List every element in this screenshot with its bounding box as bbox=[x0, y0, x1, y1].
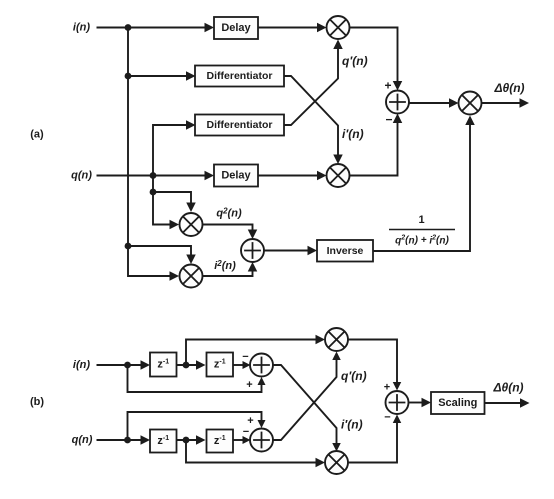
junction i(n) main bbox=[125, 24, 132, 31]
multiplier M6 top (b) bbox=[325, 328, 348, 351]
svg-text:q2(n): q2(n) bbox=[216, 207, 242, 220]
wire S2 to Inverse block bbox=[264, 250, 308, 252]
svg-text:+: + bbox=[384, 79, 391, 93]
junction i to Differentiator F1 bbox=[125, 73, 132, 80]
wire i(n) to delay Z1 bbox=[97, 364, 143, 366]
wire A2 output diagonal to M6 bottom (q'(n)) bbox=[273, 357, 337, 440]
wire Scaling to output arrow bbox=[485, 402, 522, 404]
wire Z3 to Z4 bbox=[177, 439, 198, 441]
svg-text:+: + bbox=[384, 382, 390, 394]
svg-text:−: − bbox=[384, 412, 390, 424]
multiplier M5 (i squared) bbox=[180, 265, 203, 288]
svg-text:i′(n): i′(n) bbox=[342, 127, 364, 141]
wire F1 output diagonal to M2 top (i'(n)) bbox=[284, 76, 338, 158]
summer S1 (a) bbox=[386, 91, 409, 114]
summer A2 (q differentiator) bbox=[250, 429, 273, 452]
wire Inverse output up to M3 bottom bbox=[373, 120, 470, 251]
wire S3 to Scaling block bbox=[409, 402, 424, 404]
block Differentiator F2 (Q path) bbox=[195, 115, 284, 136]
wire i branch to M5 top input bbox=[128, 246, 191, 255]
svg-text:q(n): q(n) bbox=[72, 434, 93, 446]
svg-text:q′(n): q′(n) bbox=[341, 369, 367, 383]
svg-text:i′(n): i′(n) bbox=[341, 418, 363, 432]
wire q(n) to delay Z3 bbox=[97, 439, 143, 441]
svg-text:−: − bbox=[243, 426, 249, 438]
wire i branch to M5 left input bbox=[128, 246, 171, 276]
block Scaling bbox=[431, 392, 485, 414]
svg-text:Δθ(n): Δθ(n) bbox=[493, 81, 524, 95]
wire M7 output to summer S3 bottom bbox=[348, 420, 397, 463]
wire Z2 to summer A1 bbox=[233, 364, 244, 366]
wire q(n-1) bypass to M7 bbox=[186, 440, 318, 463]
junction q(n-1) tap bbox=[183, 437, 190, 444]
svg-text:(b): (b) bbox=[30, 396, 44, 408]
wire q junction up to Differentiator F2 bbox=[153, 125, 188, 176]
svg-text:+: + bbox=[247, 415, 253, 427]
wire M1 output to summer S1 top bbox=[350, 28, 398, 86]
wire M3 to output arrow bbox=[482, 102, 521, 104]
summer A1 (i differentiator) bbox=[250, 354, 273, 377]
svg-text:Δθ(n): Δθ(n) bbox=[492, 381, 523, 395]
summer S3 (b) bbox=[386, 391, 409, 414]
svg-text:Inverse: Inverse bbox=[327, 245, 364, 257]
wire M5 output to summer S2 bottom bbox=[203, 268, 253, 276]
wire i to Differentiator F1 bbox=[128, 75, 188, 77]
svg-text:−: − bbox=[385, 113, 392, 127]
block Z1 z^-1 (I path first) bbox=[150, 353, 177, 377]
block Z4 z^-1 (Q path second) bbox=[207, 430, 234, 453]
block Inverse bbox=[317, 240, 373, 262]
svg-text:Delay: Delay bbox=[221, 22, 251, 34]
summer S2 (magnitude) bbox=[241, 239, 264, 262]
multiplier M2 (q(n-1) x i'(n)) bbox=[327, 164, 350, 187]
block Delay D2 (Q path) bbox=[214, 165, 258, 187]
svg-text:Differentiator: Differentiator bbox=[207, 119, 273, 131]
svg-text:Scaling: Scaling bbox=[438, 397, 477, 409]
multiplier M7 bottom (b) bbox=[325, 451, 348, 474]
wire q junction down to squaring branch bbox=[152, 176, 154, 193]
wire M6 output to summer S3 top bbox=[348, 340, 397, 386]
multiplier M4 (q squared) bbox=[180, 213, 203, 236]
svg-text:i(n): i(n) bbox=[73, 22, 90, 34]
wire q branch to M4 left input bbox=[153, 192, 171, 225]
junction q(n) main bbox=[150, 172, 157, 179]
svg-text:−: − bbox=[242, 351, 248, 363]
junction i(n) (b) bbox=[124, 362, 131, 369]
block Delay D1 (I path) bbox=[214, 17, 258, 39]
svg-text:i(n): i(n) bbox=[73, 359, 90, 371]
wire q(n) to Delay D2 bbox=[97, 175, 207, 177]
svg-text:(a): (a) bbox=[30, 129, 44, 141]
wire Delay D1 to multiplier M1 bbox=[258, 27, 318, 29]
wire q branch to M4 top input bbox=[153, 192, 191, 203]
junction i(n-1) tap bbox=[183, 362, 190, 369]
multiplier M1 (i(n-1) x q'(n)) bbox=[327, 16, 350, 39]
block Differentiator F1 (I path) bbox=[195, 66, 284, 87]
svg-text:1: 1 bbox=[418, 214, 424, 226]
svg-text:+: + bbox=[246, 379, 252, 391]
wire Z1 to Z2 bbox=[177, 364, 198, 366]
block Z3 z^-1 (Q path first) bbox=[150, 430, 177, 453]
junction i squaring branch bbox=[125, 243, 132, 250]
wire i(n-1) bypass to M6 bbox=[186, 340, 318, 366]
multiplier M3 output stage (a) bbox=[459, 92, 482, 115]
wire i(n) to Delay D1 bbox=[97, 27, 207, 29]
wire S1 to multiplier M3 bbox=[409, 102, 450, 104]
wire i(n) vertical bus bbox=[127, 28, 129, 247]
wire i(n) direct to A1 bottom bbox=[128, 365, 262, 392]
wire q(n) direct to A2 top bbox=[128, 412, 262, 440]
svg-text:Differentiator: Differentiator bbox=[207, 70, 273, 82]
svg-text:q′(n): q′(n) bbox=[342, 54, 368, 68]
svg-text:q(n): q(n) bbox=[71, 170, 92, 182]
junction q(n) (b) bbox=[124, 437, 131, 444]
block Z2 z^-1 (I path second) bbox=[207, 353, 234, 377]
wire M4 output to summer S2 top bbox=[203, 225, 253, 234]
junction q squaring branch bbox=[150, 189, 157, 196]
wire Z4 to summer A2 bbox=[233, 439, 244, 441]
wire Delay D2 to multiplier M2 bbox=[258, 175, 318, 177]
wire F2 output diagonal to M1 bottom (q'(n)) bbox=[284, 45, 338, 125]
svg-text:Delay: Delay bbox=[221, 170, 251, 182]
wire A1 output diagonal to M7 top (i'(n)) bbox=[273, 365, 337, 445]
wire M2 output to summer S1 bottom bbox=[350, 119, 398, 176]
